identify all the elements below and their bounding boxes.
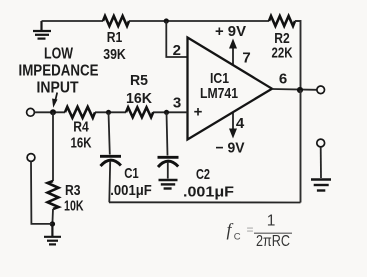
node E R3/ground junction — [50, 221, 55, 226]
node B input/R3 junction — [50, 109, 56, 115]
svg-text:R5: R5 — [130, 72, 148, 89]
node output — [297, 87, 303, 93]
wire right terminal to GND4 — [320, 147, 322, 178]
ground GND2 below C2 — [159, 180, 178, 189]
svg-text:2: 2 — [173, 42, 181, 59]
svg-text:=: = — [247, 223, 254, 237]
wire ground terminal to node E — [31, 162, 52, 224]
wire R2 to output node — [295, 21, 301, 90]
output reference terminal (right) — [317, 139, 325, 147]
svg-text:39K: 39K — [103, 46, 126, 63]
resistor R1 — [103, 16, 129, 26]
output terminal — [317, 86, 325, 94]
capacitor C2 — [158, 112, 179, 178]
ground return terminal (input side) — [27, 154, 35, 162]
svg-text:1: 1 — [267, 213, 276, 230]
wire node A to pin 2 — [166, 21, 187, 57]
ground GND1 top left — [33, 21, 51, 39]
svg-text:16K: 16K — [126, 90, 152, 107]
svg-text:INPUT: INPUT — [37, 80, 79, 97]
resistor R5 — [126, 107, 153, 117]
wire output stub pin 6 — [272, 88, 317, 91]
svg-text:2πRC: 2πRC — [256, 233, 290, 250]
resistor R2 — [269, 16, 295, 26]
svg-text:− 9V: − 9V — [216, 140, 245, 157]
node A junction R1/R2/pin2 — [164, 18, 169, 23]
resistor R3 — [48, 112, 59, 224]
wire input rail — [35, 111, 188, 113]
svg-text:22K: 22K — [272, 45, 293, 62]
wire bottom feedback rail — [109, 201, 301, 203]
svg-text:16K: 16K — [71, 135, 92, 152]
svg-text:7: 7 — [242, 50, 250, 67]
svg-text:4: 4 — [236, 115, 245, 132]
svg-text:C1: C1 — [124, 165, 139, 182]
capacitor C1 — [100, 112, 121, 202]
formula fc = 1/(2 pi R C) — [227, 213, 293, 251]
svg-text:C2: C2 — [196, 166, 210, 183]
svg-text:.001μF: .001μF — [183, 184, 234, 201]
svg-text:C: C — [234, 232, 241, 243]
ground GND4 right — [311, 180, 331, 191]
svg-text:+: + — [194, 104, 203, 121]
label LOW IMPEDANCE INPUT — [19, 46, 99, 97]
svg-text:LOW: LOW — [44, 46, 74, 63]
resistor R4 — [65, 107, 95, 118]
input pointer arrow — [52, 93, 57, 108]
supply -9V arrow at pin 4 — [229, 112, 237, 139]
node D R5/pin3/C2 junction — [164, 110, 169, 115]
ground GND3 bottom left — [44, 224, 61, 244]
wire output feedback vertical — [300, 90, 302, 203]
svg-text:.001μF: .001μF — [110, 182, 152, 199]
supply +9V arrow at pin 7 — [229, 39, 237, 66]
svg-text:6: 6 — [279, 71, 287, 88]
wire top rail middle — [129, 20, 269, 22]
svg-text:3: 3 — [173, 95, 181, 112]
svg-text:R1: R1 — [107, 29, 123, 46]
svg-text:+ 9V: + 9V — [215, 23, 246, 40]
op-amp U1 triangle — [188, 38, 273, 140]
svg-text:LM741: LM741 — [200, 85, 238, 102]
svg-text:R4: R4 — [73, 119, 89, 136]
input terminal — [27, 108, 35, 116]
svg-text:IMPEDANCE: IMPEDANCE — [19, 63, 99, 80]
svg-text:10K: 10K — [64, 198, 84, 215]
wire top rail left — [42, 20, 104, 22]
svg-text:R3: R3 — [65, 182, 81, 199]
node C R4/R5/C1 junction — [106, 110, 111, 115]
